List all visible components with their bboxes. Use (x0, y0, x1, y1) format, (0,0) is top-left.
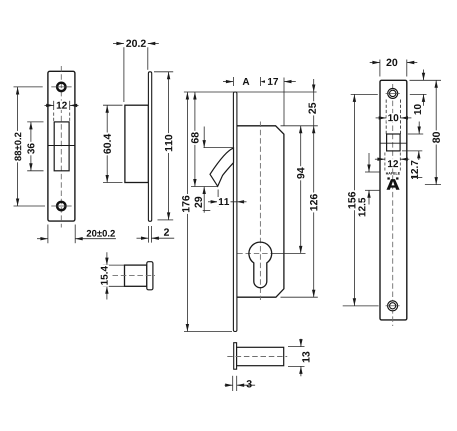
dimension 60.4 (106, 105, 108, 182)
dimension 3 extension lines (232, 376, 234, 391)
dimension 15.4 extension lines (103, 264, 124, 266)
dimension 94 (300, 126, 302, 254)
dimension 20 extension lines (379, 60, 381, 77)
faceplate bottom screw hole (388, 301, 398, 311)
dimension 36 (30, 122, 32, 171)
dimension 12 square width (375, 158, 385, 160)
sleeve body (125, 265, 147, 286)
pin flange (234, 343, 237, 370)
strike plate bottom screw hole (57, 202, 65, 210)
dimension 29 outside arrows (204, 147, 234, 149)
dimension 13 outside arrows (300, 339, 302, 347)
dimension 12.7 extension lines (408, 133, 423, 135)
strike plate top screw hole (57, 83, 65, 91)
extension lines right of case (281, 125, 318, 127)
hook bolt extended (210, 148, 234, 186)
hook slot hidden lines (385, 100, 387, 135)
label 17 (268, 78, 278, 85)
faceplate top screw hole (388, 88, 398, 98)
strike faceplate side view (148, 72, 151, 222)
dimension 60.4 extension lines (103, 104, 123, 106)
sleeve centerline (113, 274, 156, 276)
Häfele logo A symbol (387, 179, 400, 190)
cylinder centerline horizontal (237, 252, 272, 254)
strike plate reference line (48, 145, 75, 147)
dimension 10 vertical extension lines (410, 79, 442, 81)
dimension 176 (186, 92, 188, 332)
dimension 15.4 outside arrows (106, 252, 108, 265)
dimension 13 extension lines (288, 346, 305, 348)
lock faceplate front view (233, 92, 237, 332)
dimension 25 (313, 79, 315, 126)
dimension 12 (45, 104, 54, 106)
dust box side view (125, 105, 148, 182)
dimension 20.2 extension lines (123, 47, 125, 102)
label A (243, 78, 250, 85)
dimension 20.2 (113, 43, 124, 45)
extension line at faceplate top (184, 91, 317, 93)
sleeve flange (147, 262, 153, 290)
lock faceplate outline front (380, 80, 407, 320)
strike plate outline (48, 71, 75, 221)
dimension 88±0.2 extension lines (14, 86, 43, 88)
dimension 10 slot width (376, 117, 387, 119)
strike plate centerline (60, 66, 62, 228)
dimension 110 (168, 72, 170, 220)
dimension 88±0.2 (17, 87, 19, 206)
dimension 12.7 outside arrows (418, 122, 420, 135)
dimension 12 hidden extension lines (384, 153, 386, 171)
dimension A and 17 (232, 77, 234, 86)
dimension 110 extension lines (154, 71, 173, 73)
lock case outline (237, 126, 284, 297)
dimension 10 vertical outside arrows (423, 70, 425, 81)
faceplate centerline (392, 84, 394, 326)
square hook opening (387, 134, 401, 151)
dimension 20±0.2 (37, 238, 48, 240)
dimension 2 extension lines (148, 226, 150, 243)
dimension 156 extension lines (351, 93, 378, 95)
dimension 12 extension ticks (53, 101, 55, 110)
dimension 20±0.2 extension lines (47, 225, 49, 244)
pin centerline (227, 356, 287, 358)
lock centerline vertical (259, 122, 261, 301)
dimension 126 (313, 126, 315, 297)
dimension 3 (225, 384, 233, 386)
strike plate cutout (54, 122, 69, 171)
dimension 80 (435, 80, 437, 184)
dimension 11 (217, 190, 219, 207)
dimension 68 (194, 92, 196, 187)
dimension 20 (370, 62, 380, 64)
faceplate reference line (380, 142, 407, 144)
dimension 36 extension lines (27, 121, 43, 123)
euro profile cylinder hole (249, 242, 272, 288)
dimension 12.5 extension lines (365, 171, 380, 173)
dimension 2 (137, 237, 149, 239)
dimension 12.5 outside arrows (368, 153, 370, 172)
dimension 156 (353, 94, 355, 305)
Häfele logo wordmark (386, 172, 400, 174)
pin body (237, 347, 284, 365)
